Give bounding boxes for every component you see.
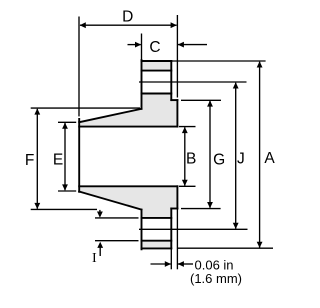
raised face top step xyxy=(171,99,177,101)
A top arrowhead xyxy=(257,61,263,67)
D right arrowhead xyxy=(171,22,177,28)
svg-text:A: A xyxy=(264,150,275,167)
A bottom ext line xyxy=(178,247,273,249)
C right arrowhead xyxy=(178,42,184,48)
I top ext line xyxy=(95,217,139,219)
I top arrow shaft xyxy=(99,210,101,212)
svg-text:G: G xyxy=(213,151,225,168)
B bottom ext line xyxy=(179,185,196,187)
hub upper gray section xyxy=(79,109,141,127)
I bottom arrowhead (points up) xyxy=(97,242,103,248)
svg-text:D: D xyxy=(122,9,133,26)
F top arrowhead xyxy=(34,108,40,114)
C left arrowhead xyxy=(135,42,141,48)
flange outline xyxy=(79,60,177,249)
G bottom ext line xyxy=(181,208,221,210)
bolt hole bottom (void) xyxy=(141,218,173,241)
E bottom ext line xyxy=(58,190,76,192)
ext line C left xyxy=(141,34,143,61)
C left arrow shaft xyxy=(128,44,141,46)
0.06 right arrow shaft xyxy=(178,263,193,265)
svg-text:(1.6 mm): (1.6 mm) xyxy=(190,271,242,286)
A top ext line xyxy=(172,60,266,62)
flange ring lower gray section xyxy=(142,186,178,248)
J bottom arrowhead xyxy=(233,223,239,229)
B top arrowhead xyxy=(182,127,188,133)
E bottom arrowhead xyxy=(62,184,68,190)
bore bottom line xyxy=(79,185,177,187)
F bottom ext line xyxy=(31,208,97,210)
dim line G xyxy=(209,101,211,208)
hub top taper xyxy=(79,109,141,122)
bolt hole top (void) xyxy=(141,71,173,94)
F top ext line xyxy=(31,107,140,109)
hub bottom taper xyxy=(79,192,141,210)
bolt centerline bottom / J ext xyxy=(139,228,248,230)
arrowheads xyxy=(34,22,262,267)
dim line J xyxy=(235,83,237,229)
bolt hole bottom lower edge xyxy=(142,240,172,242)
bore top line xyxy=(79,126,177,128)
ext line flange face down to 0.06 xyxy=(170,248,172,269)
0.06 left arrowhead (points right) xyxy=(165,261,171,267)
ext line raised face down to 0.06 xyxy=(176,209,178,270)
I top arrowhead (points down) xyxy=(97,212,103,218)
flange back face lower xyxy=(141,210,143,250)
flange ring upper gray section xyxy=(142,61,178,127)
flange front face upper xyxy=(170,61,172,100)
svg-text:F: F xyxy=(25,152,34,169)
B top ext line xyxy=(179,126,196,128)
A bottom arrowhead xyxy=(257,242,263,248)
dim line E xyxy=(64,123,66,190)
dim line F xyxy=(36,109,38,209)
0.06 left arrow shaft xyxy=(151,263,171,265)
hub weld end face xyxy=(78,119,80,192)
B bottom arrowhead xyxy=(182,180,188,186)
flange top edge xyxy=(142,60,172,62)
raised face front lower xyxy=(176,186,178,208)
E top ext line xyxy=(58,121,76,123)
thin dimension / extension lines xyxy=(31,15,273,269)
hub lower gray section xyxy=(79,186,141,209)
dim line D xyxy=(80,24,177,26)
svg-text:C: C xyxy=(149,39,160,56)
svg-text:I: I xyxy=(92,251,97,266)
flange bottom edge xyxy=(142,247,172,249)
ext line raised face up to D xyxy=(176,15,178,98)
flange back face upper xyxy=(141,60,143,109)
J top arrowhead xyxy=(233,82,239,88)
D left arrowhead xyxy=(80,22,86,28)
F bottom arrowhead xyxy=(34,203,40,209)
C right arrow shaft xyxy=(178,44,207,46)
bolt centerline top / J ext xyxy=(139,81,247,83)
svg-text:B: B xyxy=(186,151,196,168)
raised face bottom step xyxy=(171,208,177,210)
svg-text:E: E xyxy=(53,152,63,169)
G top ext line xyxy=(181,99,221,101)
svg-text:J: J xyxy=(237,151,245,168)
flange front face lower xyxy=(170,209,172,249)
I bottom ext line xyxy=(95,240,139,242)
G bottom arrowhead xyxy=(207,202,213,208)
dim line B xyxy=(184,127,186,185)
ext line weld end up to D xyxy=(78,17,80,117)
I bottom arrow shaft xyxy=(99,247,101,256)
bolt hole bottom upper edge xyxy=(142,217,172,219)
raised face front upper xyxy=(176,100,178,127)
E top arrowhead xyxy=(62,123,68,129)
bolt hole top lower edge xyxy=(142,93,172,95)
0.06 right arrowhead (points left) xyxy=(178,261,184,267)
dim line A xyxy=(259,62,261,248)
G top arrowhead xyxy=(207,100,213,106)
bolt hole top upper edge xyxy=(142,70,172,72)
